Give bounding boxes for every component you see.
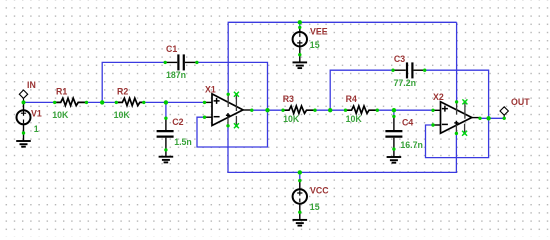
svg-text:C2: C2 [172, 117, 183, 127]
svg-text:IN: IN [27, 80, 36, 90]
svg-text:C4: C4 [402, 117, 413, 127]
svg-text:VCC: VCC [310, 185, 329, 195]
svg-text:10K: 10K [283, 114, 300, 124]
svg-text:X2: X2 [433, 92, 444, 102]
svg-text:OUT: OUT [511, 97, 530, 107]
svg-text:77.2n: 77.2n [394, 78, 417, 88]
svg-text:C1: C1 [166, 44, 177, 54]
svg-text:10K: 10K [114, 110, 131, 120]
svg-text:X1: X1 [205, 84, 216, 94]
svg-text:10K: 10K [346, 114, 363, 124]
svg-text:1.5n: 1.5n [174, 137, 192, 147]
svg-text:R4: R4 [346, 94, 357, 104]
svg-text:VEE: VEE [310, 26, 328, 36]
svg-text:V1: V1 [31, 109, 42, 119]
svg-text:R3: R3 [283, 94, 294, 104]
svg-text:15: 15 [310, 202, 320, 212]
svg-text:1: 1 [34, 124, 39, 134]
svg-text:C3: C3 [394, 54, 405, 64]
svg-text:16.7n: 16.7n [400, 140, 423, 150]
svg-text:10K: 10K [52, 110, 69, 120]
svg-text:15: 15 [310, 40, 320, 50]
svg-text:R2: R2 [117, 86, 128, 96]
svg-text:R1: R1 [56, 86, 67, 96]
svg-text:187n: 187n [166, 70, 186, 80]
